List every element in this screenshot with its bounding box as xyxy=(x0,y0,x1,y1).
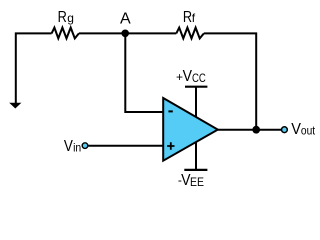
svg-text:V: V xyxy=(291,121,301,138)
wire: op-amp output to Vout terminal xyxy=(218,129,281,131)
-VEE supply rail wire xyxy=(195,142,197,170)
svg-text:R: R xyxy=(183,9,192,26)
+VCC supply rail wire xyxy=(195,87,197,117)
op-amp non-inverting input marker (+) xyxy=(167,142,174,149)
+VCC supply bar xyxy=(185,86,207,88)
op-amp inverting input marker (-) xyxy=(168,110,172,112)
terminal Vout (output port circle) xyxy=(282,127,288,133)
ground (arrowhead symbol) xyxy=(9,103,21,109)
output node junction dot xyxy=(252,126,260,134)
svg-text:g: g xyxy=(67,11,74,25)
op-amp U1 triangle xyxy=(163,98,218,161)
-VEE supply bar xyxy=(184,169,207,171)
svg-text:in: in xyxy=(73,141,81,155)
node A junction dot xyxy=(121,29,129,37)
svg-text:out: out xyxy=(301,124,316,138)
wire: Vin to non-inverting input xyxy=(88,145,163,147)
resistor Rf xyxy=(176,28,204,39)
svg-text:V: V xyxy=(183,68,193,85)
wire: left vertical with top-left corner to Rg xyxy=(16,33,52,103)
svg-text:EE: EE xyxy=(190,175,204,189)
svg-text:f: f xyxy=(192,11,196,25)
svg-text:A: A xyxy=(120,10,131,27)
wire: Rf to top-right corner and right vertical feedback down to output node xyxy=(204,33,256,129)
resistor Rg xyxy=(52,28,79,39)
svg-text:R: R xyxy=(58,9,67,26)
svg-text:V: V xyxy=(64,138,73,155)
svg-text:CC: CC xyxy=(192,71,206,85)
wire: node A down and right to inverting input xyxy=(125,33,162,112)
terminal Vin (input port circle) xyxy=(82,143,88,149)
wire: between Rg and Rf xyxy=(79,32,176,34)
